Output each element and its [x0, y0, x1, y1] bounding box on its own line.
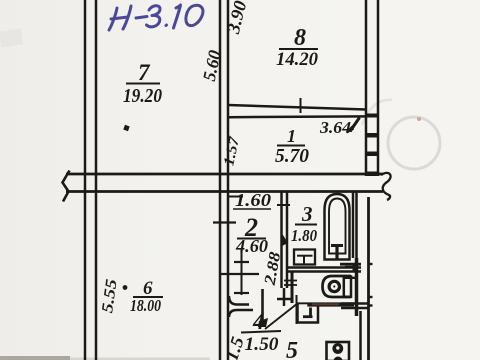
- wall right upper exterior line B: [377, 0, 380, 176]
- wall room8 bottom line B: [228, 115, 366, 118]
- white notch in wall: [299, 304, 308, 307]
- svg-text:1: 1: [287, 126, 296, 146]
- label room6 bar: [133, 296, 163, 298]
- handwritten apartment number blue: [109, 5, 203, 30]
- door leaf toilet: [296, 295, 298, 324]
- door jamb tick below band: [228, 196, 243, 198]
- wall middle vertical line A: [219, 0, 222, 360]
- svg-text:3.64: 3.64: [319, 118, 351, 137]
- svg-text:1.50: 1.50: [245, 334, 280, 355]
- main band bottom line: [66, 190, 383, 193]
- door leaf kitchen: [261, 289, 264, 321]
- washbasin divider: [303, 256, 305, 264]
- washbasin inner shelf: [297, 255, 313, 257]
- wall room2 bottom rounded: [229, 296, 249, 305]
- bathtub inner: [329, 199, 346, 254]
- svg-text:4: 4: [252, 309, 265, 334]
- wall room8 bottom line A: [228, 105, 366, 110]
- wall bathroom bottom line A: [288, 266, 361, 269]
- toilet bowl: [323, 276, 352, 297]
- bathtub drain stem: [335, 245, 338, 260]
- wall junction cross vertical: [283, 288, 286, 306]
- wall kitchen top rounded: [229, 310, 253, 317]
- wall bathroom bottom line B: [288, 270, 361, 273]
- nub tick right wall C: [368, 304, 373, 306]
- svg-text:14.20: 14.20: [276, 49, 318, 70]
- dim 3.64 tick: [348, 122, 357, 131]
- label room7 bar: [126, 83, 160, 85]
- stove box: [327, 342, 350, 360]
- dot room7: [123, 125, 129, 131]
- label room4 bar: [241, 331, 281, 333]
- shaft dash: [345, 266, 356, 268]
- closet partition vertical in room2: [241, 248, 243, 295]
- svg-text:8: 8: [294, 25, 306, 51]
- wall toilet left: [291, 272, 294, 303]
- window rungs on right upper wall: [365, 114, 379, 177]
- stamp circle faint: [388, 117, 440, 169]
- svg-text:18.00: 18.00: [130, 296, 161, 315]
- wall middle vertical line B: [227, 0, 230, 360]
- dimension tick on middle wall: [213, 221, 236, 223]
- door tick foot: [347, 129, 354, 133]
- label room3 bar: [295, 224, 317, 226]
- dimension line under 1.60: [233, 208, 271, 210]
- wall rooms 2-3 divider line A: [280, 192, 283, 288]
- tank top bar: [344, 277, 356, 279]
- main band right break squiggle: [381, 173, 391, 200]
- stamp arc faint small: [362, 100, 392, 125]
- closet long tick middle: [219, 273, 259, 275]
- wall right upper exterior line A: [365, 0, 368, 176]
- svg-text:7: 7: [138, 60, 151, 85]
- kitchen sink faucet bar: [303, 315, 313, 318]
- stove burner2 clipped: [334, 357, 343, 360]
- svg-text:19.20: 19.20: [123, 85, 162, 107]
- svg-text:3: 3: [301, 202, 313, 226]
- dimension tick room8 3.64: [300, 98, 302, 113]
- bathtub drain bar: [331, 244, 343, 247]
- wall shaft middle vertical: [355, 258, 359, 316]
- stove burner dot: [336, 346, 339, 349]
- wall rooms 2-3 divider line B: [286, 192, 289, 288]
- main band left break arrow: [63, 171, 70, 202]
- wall bathroom right line A: [352, 192, 355, 258]
- closet tick upper: [234, 261, 249, 263]
- wall left exterior line A: [84, 0, 87, 360]
- wall toilet bottom thick: [296, 302, 354, 306]
- paper smudge bottom edge: [0, 356, 70, 360]
- label room2 bar: [237, 238, 266, 240]
- wall junction cross horizontal: [277, 298, 292, 301]
- leader line label4: [265, 303, 298, 329]
- bathtub outer: [325, 194, 350, 260]
- toilet circle: [329, 281, 339, 291]
- svg-text:5: 5: [286, 338, 298, 360]
- red dot: [417, 117, 421, 121]
- wall kitchen right inner: [359, 311, 362, 360]
- shaft vertical block: [353, 264, 357, 272]
- kitchen sink box: [298, 306, 319, 323]
- door leaf blob: [258, 318, 268, 327]
- toilet tank: [344, 277, 351, 297]
- wall bathroom right line B: [355, 192, 358, 258]
- shaft horizontal line A: [341, 302, 369, 305]
- toilet dot: [333, 285, 335, 287]
- toilet door jamb line A: [284, 280, 297, 282]
- door arrow bathroom: [281, 231, 289, 247]
- closet tick lower: [234, 292, 249, 294]
- toilet wall brown tint: [312, 303, 339, 305]
- dot room6: [123, 285, 128, 290]
- main band top line: [66, 173, 383, 176]
- door tick room1 right diagonal: [350, 118, 360, 132]
- shaft stripe line: [340, 263, 361, 266]
- nub tick right wall A: [368, 263, 373, 265]
- paper smudge top-left: [0, 28, 23, 47]
- nub tick right wall B: [368, 296, 373, 298]
- shaft horizontal line B: [341, 307, 369, 310]
- svg-text:5.70: 5.70: [275, 145, 309, 167]
- toilet door jamb line B: [284, 284, 297, 286]
- washbasin outer: [294, 250, 315, 265]
- label room1 bar: [277, 145, 305, 147]
- stove burner: [332, 343, 343, 354]
- kitchen sink faucet stem: [309, 308, 312, 317]
- svg-text:1.60: 1.60: [235, 190, 271, 210]
- label room8 bar: [279, 48, 318, 50]
- svg-text:4.60: 4.60: [235, 236, 268, 256]
- tick on divider wall top: [277, 204, 290, 206]
- wall right lower exterior: [367, 197, 370, 360]
- wall left exterior line B: [95, 0, 98, 360]
- svg-text:1.80: 1.80: [291, 226, 317, 245]
